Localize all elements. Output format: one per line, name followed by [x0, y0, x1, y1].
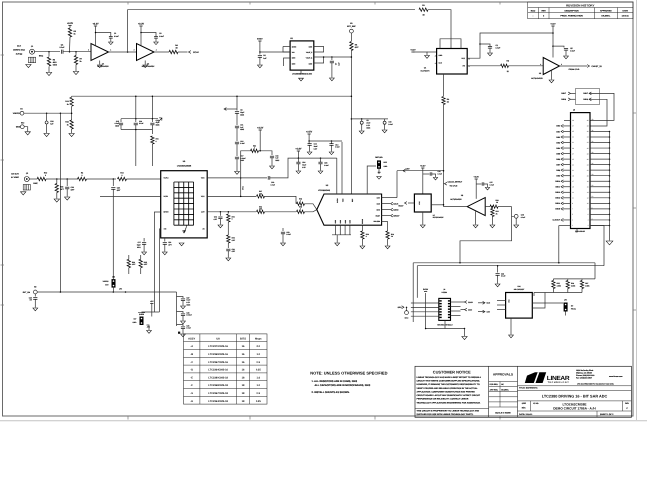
- wire +2.5V rail A: [309, 140, 342, 142]
- svg-text:16: 16: [242, 361, 245, 364]
- ground: [377, 177, 382, 180]
- wire J3 gnd pin: [590, 180, 610, 182]
- terminal E4 VREF/2: [20, 111, 24, 115]
- resistor R30: [251, 149, 259, 152]
- wire: [314, 57, 324, 63]
- wire AIN- path: [100, 195, 161, 197]
- U3 pin labels: [292, 45, 313, 65]
- svg-text:R15: R15: [60, 186, 63, 189]
- power +3.3V: [257, 127, 264, 130]
- wire: [182, 316, 184, 321]
- svg-text:24: 24: [587, 163, 589, 166]
- wire: [552, 289, 554, 293]
- wire: [444, 320, 446, 328]
- wire CNV pin: [382, 197, 397, 199]
- svg-text:3: 3: [572, 219, 573, 222]
- label C24: [302, 161, 306, 169]
- svg-text:SHDN: SHDN: [164, 211, 170, 214]
- wire DB17 to J3: [589, 93, 614, 120]
- svg-text:33: 33: [507, 70, 509, 73]
- wire to ADC +IN: [305, 204, 317, 210]
- label R15: [60, 186, 65, 192]
- svg-text:APP ENG.: APP ENG.: [490, 388, 499, 391]
- resistor R28: [297, 210, 305, 213]
- svg-text:39: 39: [572, 119, 574, 122]
- wire J3 pin: [563, 158, 571, 160]
- svg-text:VOUT_F: VOUT_F: [306, 51, 312, 54]
- svg-text:ASSY: ASSY: [188, 338, 195, 341]
- ground: [54, 199, 59, 202]
- net flag: [561, 147, 563, 150]
- net flag: [391, 208, 393, 211]
- wire: [510, 318, 512, 334]
- svg-text:DB12: DB12: [555, 191, 560, 194]
- svg-text:DB6: DB6: [556, 158, 560, 161]
- label C20: [71, 186, 76, 192]
- label C3: [496, 44, 502, 50]
- svg-text:24LC025-I/ST: 24LC025-I/ST: [514, 288, 526, 291]
- resistor R9: [442, 97, 445, 105]
- svg-text:SHEET 1 OF 2: SHEET 1 OF 2: [600, 413, 614, 416]
- wire: [491, 217, 493, 225]
- wire J4 pin right: [451, 306, 461, 308]
- power +3.3V: [420, 165, 426, 168]
- wire: [553, 46, 564, 47]
- wire: [219, 219, 221, 225]
- svg-text:C4: C4: [61, 44, 64, 47]
- wire J3 pin: [563, 197, 571, 199]
- svg-text:18: 18: [242, 400, 245, 403]
- DB16/17 loop box: [576, 89, 600, 105]
- zone tick: [633, 112, 636, 114]
- net flag: [561, 163, 563, 166]
- svg-text:+3V: +3V: [150, 300, 154, 303]
- wire: [467, 65, 500, 67]
- junction: [351, 56, 353, 58]
- label SHDN bar: [138, 312, 145, 314]
- wire: [571, 92, 576, 94]
- wire J3 gnd pin: [590, 219, 610, 221]
- ground: [281, 243, 286, 246]
- svg-text:SDO: SDO: [398, 306, 402, 309]
- wire: [120, 119, 122, 122]
- svg-text:U4: U4: [424, 67, 426, 70]
- svg-text:HOWEVER, IT REMAINS THE CUSTOM: HOWEVER, IT REMAINS THE CUSTOMER'S RESPO…: [417, 383, 481, 386]
- svg-text:www.linear.com: www.linear.com: [609, 375, 623, 378]
- junction: [558, 262, 560, 264]
- svg-text:PCB DES.: PCB DES.: [490, 383, 499, 386]
- junction: [351, 118, 353, 120]
- wire: [331, 63, 333, 78]
- capacitor C1: [109, 37, 113, 39]
- junction: [259, 51, 261, 53]
- wire: [444, 183, 445, 185]
- capacitor C31: [163, 243, 167, 245]
- svg-text:0.1uF: 0.1uF: [270, 184, 274, 187]
- ground: [462, 337, 467, 340]
- wire VCC row: [207, 195, 256, 197]
- svg-text:-IN: -IN: [202, 228, 205, 231]
- wire U16 pin: [497, 300, 506, 302]
- ground: [360, 246, 365, 249]
- wire: [29, 178, 37, 180]
- svg-text:PR: PR: [463, 65, 466, 68]
- wire: [461, 301, 465, 303]
- label R29: [232, 237, 236, 242]
- svg-text:20: 20: [592, 173, 594, 176]
- svg-text:-A: -A: [190, 345, 193, 348]
- wire: [69, 37, 72, 52]
- capacitor C15: [119, 123, 123, 125]
- wire: [361, 239, 363, 246]
- wire CLKOUT loop right: [590, 226, 604, 266]
- resistor R34: [127, 259, 130, 268]
- svg-text:16: 16: [242, 369, 245, 372]
- wire: [182, 301, 184, 306]
- wire J3 pin: [563, 186, 571, 188]
- svg-text:18: 18: [242, 384, 245, 387]
- resistor R19: [490, 205, 498, 208]
- label R35: [144, 261, 148, 266]
- wire BUSY to U7: [408, 202, 414, 204]
- wire: [331, 57, 333, 60]
- svg-text:GND: GND: [349, 219, 352, 223]
- net flag DB17: [568, 92, 570, 95]
- svg-text:C6: C6: [263, 54, 265, 57]
- svg-text:GND: GND: [344, 219, 347, 223]
- zone tick: [1, 264, 5, 266]
- svg-text:-H: -H: [190, 400, 193, 403]
- wire J3 pin: [563, 208, 571, 210]
- junction: [609, 180, 611, 182]
- svg-text:VCP-0: VCP-0: [164, 177, 169, 180]
- svg-text:4: 4: [435, 55, 436, 58]
- junction: [113, 178, 115, 180]
- J3 top right pin numbers: [592, 118, 594, 221]
- svg-text:0.1uF: 0.1uF: [324, 164, 328, 167]
- wire: [69, 26, 71, 29]
- wire J4 pin right: [451, 315, 461, 317]
- capacitor C2: [154, 37, 158, 39]
- label R7: [80, 58, 83, 64]
- svg-text:17: 17: [572, 180, 574, 183]
- svg-text:VOUT_S: VOUT_S: [306, 57, 312, 60]
- wire: [56, 179, 58, 184]
- wire VREF/2 to JP2: [59, 113, 61, 292]
- wire: [384, 124, 386, 129]
- wire DB16 to J3: [589, 99, 607, 126]
- wire J3 gnd pin: [590, 153, 610, 155]
- svg-text:CSCAN_DETECT: CSCAN_DETECT: [448, 181, 463, 184]
- wire U16 pin: [497, 308, 506, 310]
- svg-text:PERFORMANCE OR RELIABILITY. CO: PERFORMANCE OR RELIABILITY. CONTACT LINE…: [417, 398, 469, 401]
- U9 internal grid: [174, 182, 194, 225]
- svg-text:2: 2: [88, 49, 89, 52]
- resistor R1: [419, 8, 428, 11]
- wire: [46, 113, 48, 121]
- net flag: [561, 180, 563, 183]
- svg-text:VDD: VDD: [201, 177, 205, 180]
- junction: [113, 291, 115, 293]
- wire: [422, 168, 424, 194]
- svg-text:OPT: OPT: [60, 188, 65, 191]
- svg-text:2: 2: [134, 49, 135, 52]
- svg-text:VDD: VDD: [342, 198, 345, 202]
- junction: [60, 112, 62, 114]
- zone tick: [633, 309, 636, 311]
- wire CLK net: [109, 51, 137, 53]
- ground: [485, 188, 489, 190]
- power +3.3V: [67, 22, 74, 25]
- junction: [152, 95, 154, 97]
- zone tick: [249, 416, 251, 420]
- wire: [428, 10, 451, 49]
- wire J3 pin: [563, 202, 571, 204]
- capacitor C17b: [142, 243, 146, 245]
- wire: [282, 234, 284, 243]
- wire: [565, 312, 567, 316]
- svg-text:29: 29: [572, 147, 574, 150]
- resistor R3: [78, 177, 87, 180]
- wire: [219, 212, 221, 216]
- junction: [361, 118, 363, 120]
- svg-text:DB5: DB5: [556, 152, 560, 155]
- svg-text:VREF/2: VREF/2: [103, 280, 109, 283]
- wire J3 gnd pin: [590, 208, 610, 210]
- wire VREF rail: [72, 95, 352, 97]
- svg-text:1uF: 1uF: [338, 62, 341, 66]
- wire pullup rail: [553, 278, 595, 280]
- label R17: [259, 190, 262, 195]
- svg-text:LTC2380 DRIVING 16 - BIT SAR A: LTC2380 DRIVING 16 - BIT SAR ADC: [542, 395, 608, 399]
- ground: [318, 171, 323, 174]
- capacitor C30: [226, 249, 230, 251]
- wire J3 pin: [563, 153, 571, 155]
- net flag CCLK: [189, 51, 191, 54]
- svg-text:BITS: BITS: [240, 338, 246, 341]
- capacitor C24: [296, 162, 300, 164]
- connector J3: [571, 113, 591, 229]
- resistor R7: [74, 56, 77, 65]
- svg-text:GND: GND: [16, 126, 21, 129]
- net flag: [391, 214, 393, 217]
- net flag: [465, 301, 467, 304]
- wire: [378, 169, 380, 174]
- svg-text:12: 12: [587, 197, 589, 200]
- label C29: [521, 214, 525, 219]
- svg-text:0.1uF: 0.1uF: [240, 142, 244, 145]
- svg-text:DATE: DATE: [622, 9, 628, 12]
- wire J3 gnd pin: [590, 224, 610, 226]
- svg-text:CM: CM: [112, 275, 115, 278]
- wire: [489, 48, 491, 52]
- svg-text:AIN 3.5V: AIN 3.5V: [11, 173, 19, 176]
- ground: [425, 56, 430, 59]
- wire: [567, 279, 569, 281]
- svg-text:GND: GND: [309, 62, 313, 65]
- svg-text:CNV: CNV: [377, 196, 381, 199]
- capacitor C17: [235, 157, 239, 159]
- buffer U2: [137, 44, 155, 61]
- wire: [236, 159, 238, 171]
- wire VCC net: [241, 151, 251, 197]
- wire: [425, 293, 427, 329]
- svg-text:11: 11: [572, 197, 574, 200]
- junction: [609, 136, 611, 138]
- svg-text:LTC Confidential-For Customer: LTC Confidential-For Customer Use Only: [577, 382, 615, 385]
- svg-text:1uF: 1uF: [263, 57, 267, 60]
- junction: [308, 140, 310, 142]
- svg-text:LTC2364CMS-18: LTC2364CMS-18: [208, 400, 228, 403]
- wire: [151, 304, 153, 317]
- wire to ADC -IN: [305, 210, 317, 212]
- svg-text:BNC: BNC: [39, 55, 44, 58]
- title rows: [518, 386, 632, 418]
- label C13: [314, 143, 318, 151]
- zone tick: [1, 54, 5, 56]
- net flag: [561, 158, 563, 161]
- svg-text:J1: J1: [31, 45, 34, 48]
- svg-text:OVDD: OVDD: [336, 198, 339, 203]
- svg-text:APPROVALS: APPROVALS: [493, 372, 514, 376]
- wire: [35, 51, 61, 53]
- svg-text:C2: C2: [159, 32, 161, 35]
- svg-text:0.1uF: 0.1uF: [570, 49, 576, 52]
- svg-text:GND: GND: [384, 165, 389, 168]
- svg-text:R4: R4: [175, 44, 178, 47]
- svg-text:4: 4: [592, 217, 593, 220]
- svg-text:R9: R9: [447, 98, 449, 101]
- buffer U1: [91, 44, 109, 61]
- wire: [509, 65, 544, 67]
- svg-text:LTC6362CMS8E: LTC6362CMS8E: [177, 164, 192, 167]
- junction: [75, 51, 77, 53]
- wire: [154, 51, 169, 53]
- label R1: [422, 4, 424, 7]
- svg-text:1k: 1k: [67, 103, 69, 106]
- net flag: [561, 196, 563, 199]
- junction: [609, 158, 611, 160]
- svg-text:DB2: DB2: [556, 136, 560, 139]
- svg-text:LTC6655BHMS8-4.096: LTC6655BHMS8-4.096: [292, 72, 312, 75]
- power +2.5V: [306, 131, 313, 134]
- svg-text:5: 5: [572, 213, 573, 216]
- svg-text:VCC: VCC: [201, 195, 205, 198]
- capacitor C19: [150, 123, 154, 125]
- svg-text:DB7: DB7: [556, 163, 560, 166]
- svg-text:-D: -D: [190, 369, 193, 372]
- svg-text:DATE: 12-9-11: DATE: 12-9-11: [519, 413, 533, 416]
- svg-text:20: 20: [587, 174, 589, 177]
- svg-text:U8: U8: [461, 194, 463, 197]
- capacitor C3: [488, 47, 492, 49]
- svg-text:LINEAR TECHNOLOGY HAS MADE A B: LINEAR TECHNOLOGY HAS MADE A BEST EFFORT…: [417, 376, 482, 379]
- wire J4 pin left: [411, 302, 439, 304]
- terminal E1: [350, 29, 354, 33]
- ground: [329, 152, 334, 155]
- wire: [475, 211, 477, 224]
- junction: [609, 131, 611, 133]
- IC U7: [414, 194, 431, 212]
- junction: [95, 32, 97, 34]
- svg-text:-E: -E: [190, 376, 193, 379]
- wire: [96, 33, 111, 37]
- ground: [162, 252, 167, 255]
- net flag arrow: [159, 118, 163, 122]
- wire CLK feedback to U4: [128, 10, 415, 52]
- svg-text:LTC2370CMS-16: LTC2370CMS-16: [208, 345, 228, 348]
- svg-text:18: 18: [587, 180, 589, 183]
- connector J4: [439, 298, 451, 320]
- svg-text:CIRCUIT BOARD LAYOUT MAY SIGNI: CIRCUIT BOARD LAYOUT MAY SIGNIFICANTLY A…: [417, 394, 481, 397]
- svg-text:GND: GND: [439, 54, 444, 57]
- wire: [396, 171, 398, 198]
- wire GND pin: [339, 225, 341, 235]
- wire: [552, 279, 554, 281]
- svg-text:0: 0: [300, 208, 301, 211]
- svg-text:32: 32: [587, 141, 589, 144]
- label C30: [232, 248, 236, 253]
- svg-text:U16: U16: [517, 285, 520, 288]
- svg-text:OPT: OPT: [232, 250, 236, 253]
- capacitor C18: [45, 121, 48, 124]
- wire: [265, 196, 297, 203]
- customer notice: [415, 369, 489, 416]
- svg-text:+3.3V: +3.3V: [92, 23, 99, 26]
- svg-text:0: 0: [122, 174, 123, 177]
- capacitor C16: [134, 123, 138, 125]
- connector J2 BNC: [23, 177, 30, 191]
- wire: [320, 158, 322, 162]
- svg-text:0.25: 0.25: [256, 400, 262, 403]
- junction: [351, 95, 353, 97]
- svg-text:OPT: OPT: [168, 244, 172, 247]
- wire J3 gnd pin: [590, 136, 610, 138]
- wire J3 gnd pin: [590, 169, 610, 171]
- label R16: [391, 233, 394, 238]
- svg-text:15: 15: [572, 185, 574, 188]
- svg-text:-F: -F: [190, 384, 193, 387]
- junction: [443, 204, 445, 206]
- svg-text:DEMO CIRCUIT 1786A - A /H: DEMO CIRCUIT 1786A - A /H: [553, 407, 596, 411]
- wire: [467, 33, 553, 58]
- wire J3 pin: [563, 175, 571, 177]
- svg-text:N/A: N/A: [522, 407, 526, 410]
- svg-text:J4: J4: [443, 288, 445, 291]
- wire GND pin: [335, 225, 337, 235]
- wire: [259, 151, 273, 155]
- wire +1.8V rail B: [298, 157, 336, 159]
- svg-text:2k: 2k: [496, 212, 498, 215]
- junction: [135, 129, 137, 131]
- wire: [308, 134, 310, 141]
- svg-text:CSDI: CSDI: [468, 309, 473, 312]
- wire: [534, 292, 582, 294]
- net flag: [561, 207, 563, 210]
- wire CSDO: [382, 209, 390, 211]
- wire: [236, 144, 238, 156]
- label U6: [539, 72, 541, 75]
- wire CNVST_33: [560, 65, 588, 67]
- label R32: [65, 121, 68, 127]
- svg-text:LTC2368CMS-18: LTC2368CMS-18: [208, 384, 228, 387]
- resistor R18: [297, 202, 305, 205]
- wire J4 bottom rail: [426, 328, 465, 330]
- svg-text:1k: 1k: [67, 123, 69, 126]
- svg-text:APPROVED: APPROVED: [600, 9, 612, 12]
- wire: [135, 96, 137, 119]
- wire: [320, 164, 322, 171]
